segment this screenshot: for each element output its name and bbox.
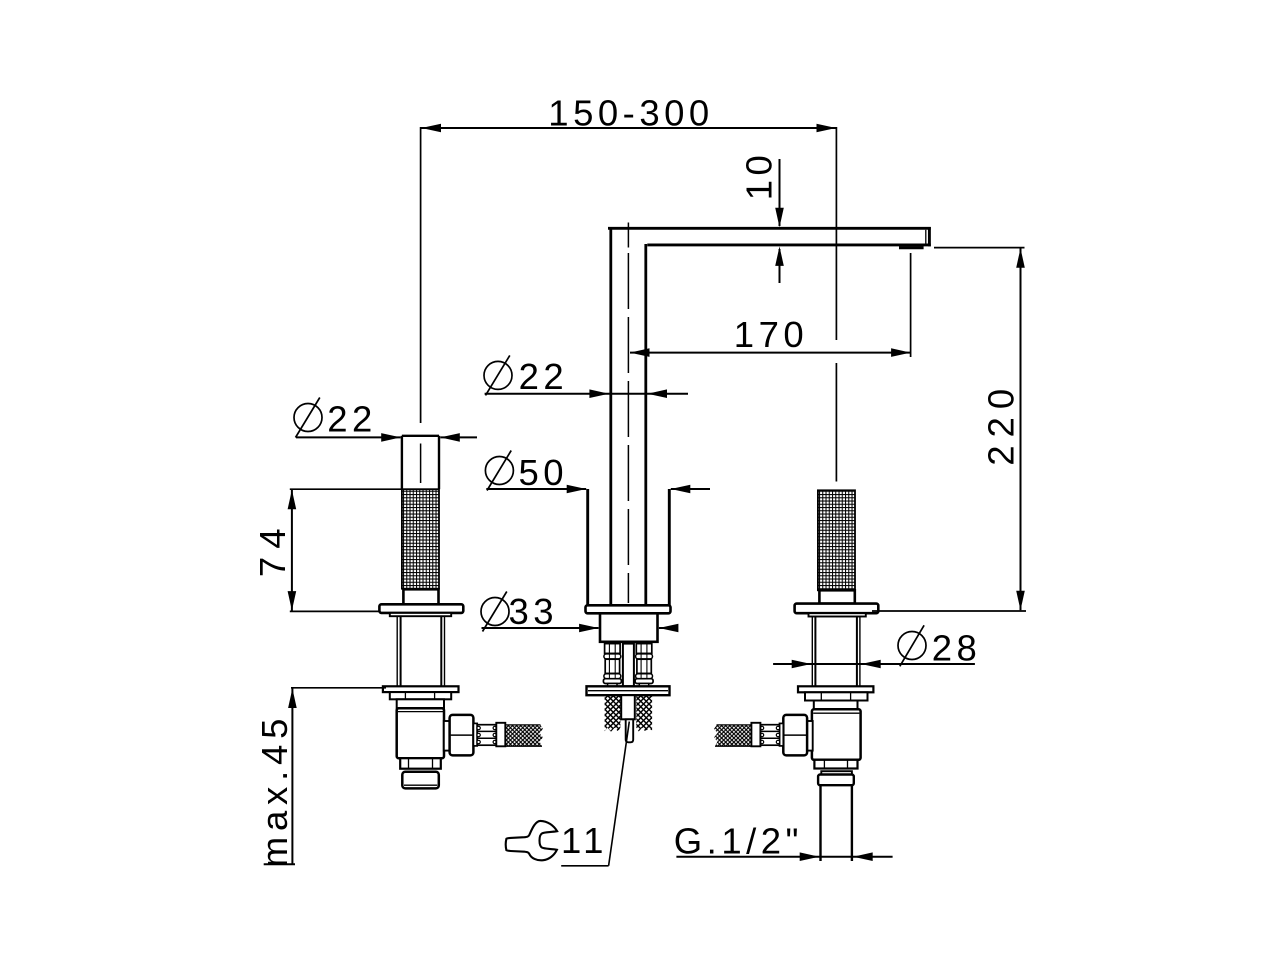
- leader line for wrench: [609, 722, 630, 866]
- right handle neck band: [819, 590, 854, 603]
- spout lower flange: [587, 686, 670, 695]
- 74 extension bottom: [290, 610, 379, 612]
- svg-text:50: 50: [518, 452, 568, 493]
- dimension d22 riser: [484, 361, 512, 389]
- right outlet step: [807, 721, 813, 751]
- left handle lower flange: [383, 686, 459, 692]
- dimension 74: [291, 490, 293, 611]
- left bottom cap: [402, 772, 439, 789]
- right hose ferrule 2: [751, 723, 760, 747]
- spout base flange: [586, 605, 671, 613]
- left handle flange: [379, 604, 463, 613]
- pull rod: [623, 644, 634, 687]
- right washer ring: [821, 771, 852, 774]
- extension line left (to left handle): [420, 127, 422, 423]
- left handle mounting nut: [390, 692, 451, 699]
- dimension 170: [630, 352, 911, 354]
- left handle flange lip: [390, 613, 451, 616]
- svg-text:22: 22: [327, 398, 377, 439]
- extension line 170 right: [910, 253, 912, 357]
- extension line right (to right handle): [835, 127, 837, 340]
- right supply collar: [818, 775, 854, 786]
- right handle flange: [795, 604, 879, 614]
- dimension d28: [898, 632, 926, 660]
- svg-text:G.1/2": G.1/2": [674, 820, 803, 861]
- left hose ferrule 2: [496, 723, 505, 747]
- left braided hose: [506, 725, 543, 746]
- spout mounting collar (d33): [600, 613, 658, 642]
- left outlet hex: [450, 715, 474, 756]
- check valve left: [603, 644, 621, 687]
- right valve body: [812, 709, 861, 760]
- dimension d33: [481, 598, 509, 626]
- right handle flange lip: [809, 613, 866, 616]
- spout riser column: [609, 227, 612, 606]
- left valve neck: [397, 699, 444, 708]
- 220 extension bottom: [872, 610, 1026, 612]
- right ferrule: [780, 723, 784, 746]
- hose hatch right: [636, 695, 652, 732]
- left valve body: [397, 708, 444, 758]
- right mounting nut: [805, 692, 868, 700]
- svg-text:170: 170: [734, 314, 808, 355]
- left handle body tube: [396, 616, 398, 686]
- dimension 150-300: [421, 127, 836, 129]
- svg-text:11: 11: [561, 820, 608, 861]
- left handle knurl: [402, 489, 439, 589]
- left ferrule: [473, 723, 477, 746]
- right bottom hex nut: [814, 760, 857, 769]
- hose hatch left: [605, 695, 621, 732]
- right handle lower flange: [798, 686, 873, 692]
- svg-text:33: 33: [508, 591, 558, 632]
- svg-text:28: 28: [932, 627, 982, 668]
- left bottom hex nut: [400, 758, 441, 769]
- right handle knurl: [818, 490, 855, 590]
- right outlet hex: [783, 715, 807, 756]
- svg-text:10: 10: [739, 151, 780, 201]
- right supply pipe G1/2: [819, 785, 821, 861]
- 220 extension top: [934, 247, 1025, 249]
- spout outer tube (d50): [586, 489, 589, 606]
- right valve neck: [814, 701, 858, 710]
- riser centerline: [627, 223, 629, 248]
- max45 end bar: [264, 863, 295, 865]
- svg-text:22: 22: [519, 356, 569, 397]
- right handle body tube: [811, 617, 813, 687]
- svg-text:max.45: max.45: [254, 713, 295, 868]
- spout outlet under bar right end: [899, 246, 924, 249]
- max45 extension: [291, 687, 386, 689]
- dimension 220: [1020, 248, 1022, 610]
- dimension d22 left handle: [294, 404, 322, 432]
- left handle neck band: [403, 589, 438, 604]
- check valve right: [635, 644, 653, 687]
- wrench icon 11: [506, 821, 557, 860]
- right braided hose: [714, 725, 751, 746]
- left hose nipple: [477, 725, 496, 746]
- svg-text:220: 220: [980, 381, 1021, 466]
- 74 extension top: [290, 488, 403, 490]
- right hose nipple: [760, 725, 779, 746]
- svg-text:74: 74: [252, 520, 293, 577]
- pull rod lower: [621, 695, 635, 719]
- left outlet step: [444, 721, 450, 751]
- left handle: top cylinder: [402, 435, 439, 437]
- dimension 10: [739, 151, 780, 201]
- dimension max.45: [291, 689, 293, 865]
- spout horizontal bar: [608, 227, 931, 246]
- dimension d50: [485, 457, 513, 485]
- svg-text:150-300: 150-300: [548, 92, 713, 133]
